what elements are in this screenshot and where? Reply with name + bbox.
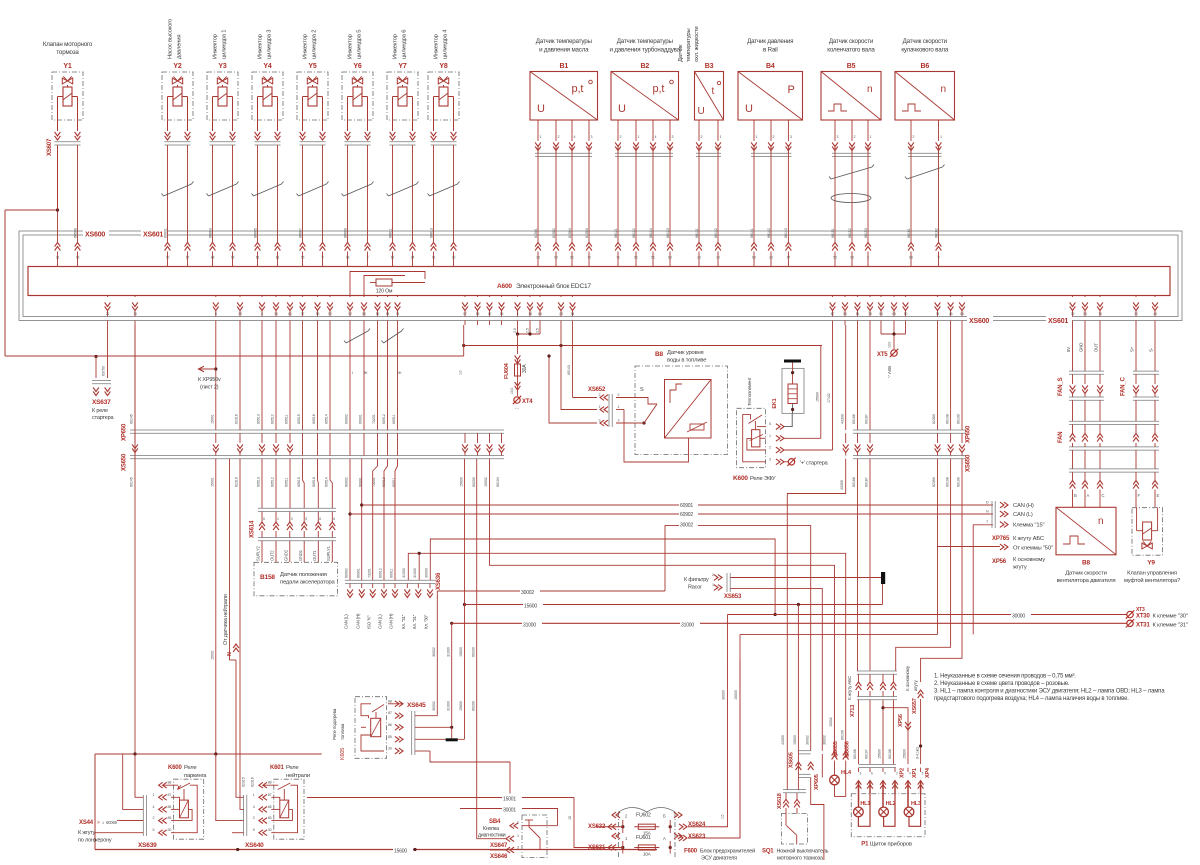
twist marks bbox=[164, 184, 192, 196]
svg-text:60601: 60601 bbox=[163, 228, 167, 238]
svg-text:65: 65 bbox=[892, 312, 896, 316]
svg-text:17: 17 bbox=[186, 256, 190, 260]
svg-text:81: 81 bbox=[856, 312, 860, 316]
svg-text:85: 85 bbox=[168, 816, 172, 820]
svg-text:Датчик скорости: Датчик скорости bbox=[903, 38, 948, 45]
svg-text:64: 64 bbox=[538, 312, 542, 316]
svg-text:60143: 60143 bbox=[784, 228, 788, 238]
svg-text:XS650: XS650 bbox=[966, 454, 972, 472]
svg-text:3: 3 bbox=[769, 457, 771, 461]
svg-text:цилиндра 1: цилиндра 1 bbox=[222, 30, 228, 59]
wires 30002/31000/15600/60200 down bbox=[436, 591, 438, 700]
wire bbox=[537, 120, 539, 141]
svg-text:Ножной выключатель: Ножной выключатель bbox=[777, 848, 829, 855]
svg-text:моторного тормоза: моторного тормоза bbox=[777, 856, 824, 861]
shield B6 bbox=[907, 167, 943, 179]
svg-text:и давления турбонаддува: и давления турбонаддува bbox=[610, 47, 681, 54]
wires to XS640 bbox=[236, 754, 244, 797]
label XS601 bbox=[141, 228, 167, 237]
svg-text:FAN_S: FAN_S bbox=[1058, 377, 1064, 396]
svg-text:CAN (H): CAN (H) bbox=[1013, 503, 1034, 509]
svg-text:6: 6 bbox=[215, 312, 217, 316]
svg-text:51: 51 bbox=[376, 312, 380, 316]
svg-text:74: 74 bbox=[396, 312, 400, 316]
connector XP56 break bbox=[905, 726, 911, 730]
svg-text:Клапан моторного: Клапан моторного bbox=[43, 41, 93, 48]
svg-text:XS640: XS640 bbox=[245, 842, 264, 849]
svg-text:К жгуту: К жгуту bbox=[78, 830, 96, 836]
svg-text:85: 85 bbox=[268, 816, 272, 820]
svg-text:Y6: Y6 bbox=[353, 63, 361, 70]
svg-text:30000: 30000 bbox=[722, 690, 726, 700]
svg-text:А: А bbox=[663, 836, 666, 841]
svg-text:3: 3 bbox=[291, 517, 293, 521]
wire 60911 bbox=[395, 459, 398, 580]
fan clutch valve Y9 bbox=[1132, 508, 1163, 556]
svg-text:XS601: XS601 bbox=[1048, 318, 1068, 325]
svg-text:60513: 60513 bbox=[257, 414, 261, 424]
svg-text:2: 2 bbox=[153, 816, 155, 820]
wire bbox=[55, 136, 61, 140]
wire 60902 bbox=[349, 459, 351, 580]
svg-text:1: 1 bbox=[618, 405, 620, 409]
svg-text:43309: 43309 bbox=[840, 414, 844, 424]
svg-text:60200: 60200 bbox=[471, 701, 475, 711]
svg-text:13: 13 bbox=[500, 312, 504, 316]
svg-text:61503: 61503 bbox=[585, 228, 589, 238]
svg-text:25: 25 bbox=[536, 256, 540, 260]
svg-text:60124: 60124 bbox=[649, 228, 653, 238]
svg-text:28: 28 bbox=[559, 312, 563, 316]
svg-text:63750: 63750 bbox=[102, 366, 106, 376]
svg-text:9: 9 bbox=[322, 256, 324, 260]
svg-text:XP2: XP2 bbox=[900, 768, 906, 778]
svg-text:температуры: температуры bbox=[686, 29, 692, 62]
svg-text:30002: 30002 bbox=[823, 735, 827, 745]
svg-text:48: 48 bbox=[211, 256, 215, 260]
connector XS624 bbox=[683, 824, 687, 830]
svg-text:1: 1 bbox=[756, 135, 758, 139]
svg-text:81: 81 bbox=[276, 256, 280, 260]
svg-text:60513: 60513 bbox=[257, 477, 261, 487]
svg-text:FAN_C: FAN_C bbox=[1121, 376, 1127, 396]
wire bbox=[390, 136, 396, 140]
svg-text:XS44: XS44 bbox=[79, 820, 94, 826]
svg-text:I: I bbox=[387, 371, 388, 375]
svg-text:10,0: 10,0 bbox=[888, 342, 892, 348]
svg-text:XS652: XS652 bbox=[588, 387, 606, 393]
svg-text:87: 87 bbox=[268, 793, 272, 797]
svg-text:6: 6 bbox=[263, 517, 265, 521]
svg-text:60613: 60613 bbox=[429, 228, 433, 238]
svg-text:62316: 62316 bbox=[235, 477, 239, 487]
svg-text:62316: 62316 bbox=[235, 414, 239, 424]
svg-text:30002: 30002 bbox=[521, 590, 534, 596]
svg-text:К основному: К основному bbox=[1013, 557, 1045, 563]
svg-text:охл. жидкости: охл. жидкости bbox=[694, 27, 700, 62]
terminal XT30 bbox=[1127, 611, 1133, 617]
svg-text:45: 45 bbox=[949, 312, 953, 316]
svg-text:60131: 60131 bbox=[695, 228, 699, 238]
svg-text:60152: 60152 bbox=[848, 228, 852, 238]
svg-text:30: 30 bbox=[168, 828, 172, 832]
svg-text:'+' стартера: '+' стартера bbox=[800, 461, 829, 467]
relay internal wires K601 bbox=[271, 785, 297, 833]
connector frame XS600/XS601 bbox=[19, 231, 1182, 321]
svg-text:50: 50 bbox=[328, 312, 332, 316]
svg-text:XS605: XS605 bbox=[789, 752, 795, 768]
svg-text:Датчик: Датчик bbox=[678, 44, 684, 62]
svg-text:60132: 60132 bbox=[714, 228, 718, 238]
svg-text:XS601: XS601 bbox=[143, 232, 163, 239]
svg-text:3: 3 bbox=[599, 419, 601, 423]
svg-text:15600: 15600 bbox=[459, 701, 463, 711]
svg-text:15001: 15001 bbox=[503, 797, 516, 803]
svg-text:60153: 60153 bbox=[864, 228, 868, 238]
svg-text:30: 30 bbox=[452, 256, 456, 260]
svg-text:S: S bbox=[640, 387, 644, 393]
svg-text:5V: 5V bbox=[1066, 347, 1071, 352]
terminal XT4 bbox=[514, 397, 520, 403]
svg-text:20: 20 bbox=[697, 256, 701, 260]
svg-text:Блок предохранителей: Блок предохранителей bbox=[700, 848, 755, 855]
svg-text:15001: 15001 bbox=[211, 414, 215, 424]
svg-text:31000: 31000 bbox=[402, 568, 406, 578]
svg-text:60912: 60912 bbox=[382, 414, 386, 424]
svg-text:1,5: 1,5 bbox=[721, 814, 725, 819]
svg-text:60511: 60511 bbox=[285, 478, 289, 487]
svg-text:2,5: 2,5 bbox=[536, 328, 540, 333]
svg-text:1: 1 bbox=[277, 517, 279, 521]
svg-text:55: 55 bbox=[362, 312, 366, 316]
svg-text:88: 88 bbox=[388, 699, 392, 703]
svg-text:1: 1 bbox=[940, 135, 942, 139]
svg-text:цилиндра 6: цилиндра 6 bbox=[402, 30, 408, 59]
svg-text:4: 4 bbox=[153, 805, 155, 809]
svg-text:60108: 60108 bbox=[888, 749, 892, 759]
wire 15001 / K XP950v bbox=[215, 325, 217, 430]
svg-text:30002: 30002 bbox=[805, 735, 809, 745]
svg-text:XP765: XP765 bbox=[992, 536, 1010, 542]
wire bbox=[910, 120, 912, 141]
svg-text:U: U bbox=[698, 106, 705, 117]
bus 31000 bbox=[450, 622, 453, 625]
svg-text:86: 86 bbox=[168, 805, 172, 809]
svg-text:1: 1 bbox=[599, 405, 601, 409]
svg-text:61504: 61504 bbox=[568, 228, 572, 238]
svg-text:1: 1 bbox=[712, 583, 714, 587]
terminal XT5 bbox=[880, 325, 882, 334]
svg-text:120 Ом: 120 Ом bbox=[376, 289, 393, 295]
relay wires K605 bbox=[388, 703, 403, 705]
svg-text:60186: 60186 bbox=[852, 477, 856, 487]
svg-text:K605: K605 bbox=[340, 748, 346, 760]
svg-text:2: 2 bbox=[867, 256, 869, 260]
svg-text:'-' АКБ: '-' АКБ bbox=[887, 366, 892, 378]
svg-text:К жгуту АБС: К жгуту АБС bbox=[1013, 536, 1044, 542]
svg-text:n: n bbox=[867, 84, 872, 95]
svg-text:61: 61 bbox=[570, 256, 574, 260]
svg-text:B8: B8 bbox=[1082, 560, 1091, 567]
svg-text:87: 87 bbox=[831, 312, 835, 316]
svg-text:XT30: XT30 bbox=[1136, 614, 1150, 620]
svg-text:15600: 15600 bbox=[793, 735, 797, 745]
connector XP650/XS650 right bbox=[845, 325, 847, 430]
connector XS623 bbox=[683, 835, 687, 841]
svg-text:2: 2 bbox=[854, 135, 856, 139]
wire bbox=[165, 136, 171, 140]
twist marks CAN bbox=[346, 331, 368, 343]
svg-text:34: 34 bbox=[571, 312, 575, 316]
svg-text:4: 4 bbox=[655, 135, 657, 139]
svg-text:1: 1 bbox=[540, 135, 542, 139]
svg-text:ISO "K": ISO "K" bbox=[366, 615, 371, 629]
svg-text:3: 3 bbox=[837, 135, 839, 139]
svg-text:77: 77 bbox=[301, 312, 305, 316]
label XS600 bbox=[83, 228, 109, 237]
svg-text:XP650: XP650 bbox=[122, 423, 128, 441]
svg-text:XS600: XS600 bbox=[969, 318, 989, 325]
svg-text:по лонжерону: по лонжерону bbox=[78, 838, 112, 844]
bus to fuel heater bbox=[462, 344, 465, 347]
svg-text:FAN: FAN bbox=[1058, 432, 1064, 443]
svg-text:XS653: XS653 bbox=[724, 594, 742, 600]
instrument panel P1 bbox=[851, 794, 925, 837]
svg-text:60151: 60151 bbox=[831, 228, 835, 238]
terminal 50 arrow bbox=[1004, 544, 1008, 550]
svg-text:Y2: Y2 bbox=[173, 63, 181, 70]
wire 17102 drop bbox=[832, 325, 834, 450]
svg-text:5: 5 bbox=[305, 517, 307, 521]
svg-text:Датчик скорости: Датчик скорости bbox=[829, 38, 874, 45]
svg-text:50: 50 bbox=[904, 312, 908, 316]
svg-text:61: 61 bbox=[288, 312, 292, 316]
svg-text:Кнопка: Кнопка bbox=[483, 826, 499, 832]
wire bbox=[345, 136, 351, 140]
svg-text:61502: 61502 bbox=[552, 228, 556, 238]
svg-text:Кл. "31": Кл. "31" bbox=[412, 614, 417, 629]
svg-text:Инжектор: Инжектор bbox=[434, 34, 440, 59]
svg-text:цилиндра 2: цилиндра 2 bbox=[312, 30, 318, 59]
svg-text:p,t: p,t bbox=[653, 83, 665, 95]
bus 30000 bbox=[728, 614, 1128, 616]
svg-text:давления: давления bbox=[177, 35, 183, 59]
svg-text:20: 20 bbox=[769, 256, 773, 260]
svg-text:FU601: FU601 bbox=[636, 835, 651, 841]
svg-text:педали акселератора: педали акселератора bbox=[280, 580, 336, 586]
wire to XS652 pin3 bbox=[549, 356, 597, 423]
bus 15600 bbox=[463, 603, 466, 606]
svg-text:60515: 60515 bbox=[297, 414, 301, 424]
svg-text:1: 1 bbox=[720, 135, 722, 139]
svg-text:60516: 60516 bbox=[312, 414, 316, 424]
svg-text:60161: 60161 bbox=[907, 228, 911, 238]
junction 60901 bbox=[360, 503, 363, 506]
svg-text:30000: 30000 bbox=[425, 568, 429, 578]
svg-text:50: 50 bbox=[833, 256, 837, 260]
svg-text:XS623: XS623 bbox=[688, 834, 706, 840]
svg-text:XS631: XS631 bbox=[588, 845, 606, 851]
wire 60513 bbox=[261, 325, 263, 430]
svg-text:Инжектор: Инжектор bbox=[258, 34, 264, 59]
wire 15600 drop bbox=[820, 346, 822, 439]
svg-text:коленчатого вала: коленчатого вала bbox=[827, 47, 875, 54]
svg-text:XS607: XS607 bbox=[47, 138, 53, 156]
svg-text:60902: 60902 bbox=[345, 414, 349, 424]
svg-text:95: 95 bbox=[850, 256, 854, 260]
svg-text:XS637: XS637 bbox=[92, 399, 111, 406]
svg-text:XS614: XS614 bbox=[250, 520, 256, 538]
svg-text:35: 35 bbox=[274, 312, 278, 316]
svg-text:60187: 60187 bbox=[865, 414, 869, 424]
svg-text:2: 2 bbox=[367, 256, 369, 260]
svg-text:61: 61 bbox=[391, 256, 395, 260]
svg-text:жгуту: жгуту bbox=[913, 680, 918, 691]
svg-text:Инжектор: Инжектор bbox=[393, 34, 399, 59]
svg-text:Щиток приборов: Щиток приборов bbox=[870, 842, 912, 848]
svg-text:3: 3 bbox=[591, 135, 593, 139]
svg-text:60609: 60609 bbox=[343, 228, 347, 238]
svg-text:73201: 73201 bbox=[372, 414, 376, 424]
bottom bus 15600 bbox=[95, 849, 657, 851]
svg-text:31000: 31000 bbox=[523, 622, 536, 628]
bottom pin wires bbox=[107, 296, 109, 298]
svg-text:XS636: XS636 bbox=[436, 572, 442, 590]
svg-text:CAN (L): CAN (L) bbox=[344, 614, 349, 629]
top pin wires bbox=[57, 145, 59, 242]
svg-text:51: 51 bbox=[651, 256, 655, 260]
svg-text:60108: 60108 bbox=[945, 477, 949, 487]
svg-text:От датчика нейтрали: От датчика нейтрали bbox=[222, 594, 229, 645]
svg-text:43309: 43309 bbox=[781, 735, 785, 745]
svg-text:тормоза: тормоза bbox=[56, 49, 79, 56]
svg-text:К жгуту АБС: К жгуту АБС bbox=[847, 675, 852, 700]
svg-text:цилиндра 3: цилиндра 3 bbox=[267, 30, 273, 59]
svg-text:XP56: XP56 bbox=[992, 559, 1007, 565]
svg-text:2. Неуказанные в схеме цвета п: 2. Неуказанные в схеме цвета проводов – … bbox=[934, 681, 1070, 687]
svg-text:31000: 31000 bbox=[446, 647, 450, 657]
svg-text:44: 44 bbox=[1153, 312, 1157, 316]
svg-text:предстартового подогрева возду: предстартового подогрева воздуха; HL4 – … bbox=[934, 696, 1129, 702]
svg-text:Датчик уровня: Датчик уровня bbox=[667, 350, 703, 356]
svg-text:B4: B4 bbox=[766, 63, 775, 70]
junction 60902 bbox=[348, 512, 351, 515]
label XS601 bottom bbox=[1046, 315, 1072, 324]
connector XP605 bbox=[798, 773, 810, 775]
terminal XT31 bbox=[1127, 620, 1133, 626]
svg-text:60901: 60901 bbox=[359, 414, 363, 424]
svg-text:30001: 30001 bbox=[503, 808, 516, 814]
junction to XP56 bbox=[881, 706, 884, 709]
svg-text:60901: 60901 bbox=[356, 568, 360, 578]
svg-text:39: 39 bbox=[868, 312, 872, 316]
svg-text:60611: 60611 bbox=[388, 229, 392, 238]
wire 30002 to XP765 bbox=[665, 526, 811, 751]
svg-text:0-4,1кΩ: 0-4,1кΩ bbox=[915, 747, 919, 759]
svg-text:85: 85 bbox=[388, 735, 392, 739]
svg-text:CAN (H): CAN (H) bbox=[389, 613, 394, 629]
svg-text:XT5: XT5 bbox=[877, 352, 888, 358]
svg-text:78: 78 bbox=[346, 256, 350, 260]
svg-text:2: 2 bbox=[701, 135, 703, 139]
svg-text:60122: 60122 bbox=[632, 228, 636, 238]
svg-text:60912: 60912 bbox=[379, 568, 383, 578]
svg-text:54: 54 bbox=[879, 312, 883, 316]
svg-text:60902: 60902 bbox=[680, 512, 693, 518]
svg-text:HL4: HL4 bbox=[841, 770, 852, 776]
wire 60145 bbox=[134, 325, 136, 430]
svg-text:1: 1 bbox=[638, 135, 640, 139]
svg-text:3: 3 bbox=[672, 135, 674, 139]
svg-text:60911: 60911 bbox=[392, 415, 396, 424]
svg-text:30: 30 bbox=[388, 747, 392, 751]
svg-text:15000: 15000 bbox=[734, 690, 738, 700]
svg-text:21: 21 bbox=[106, 312, 110, 316]
fan speed sensor B8 bbox=[1056, 507, 1116, 555]
svg-text:43309: 43309 bbox=[840, 480, 844, 490]
svg-text:паркинга: паркинга bbox=[184, 773, 207, 779]
svg-text:Инжектор: Инжектор bbox=[303, 34, 309, 59]
svg-text:Датчик скорости: Датчик скорости bbox=[1065, 571, 1106, 577]
svg-text:K600: K600 bbox=[168, 765, 182, 771]
svg-text:10А: 10А bbox=[643, 852, 652, 857]
wire bbox=[753, 120, 755, 141]
svg-text:XS639: XS639 bbox=[138, 842, 157, 849]
svg-text:86: 86 bbox=[268, 805, 272, 809]
bus labels 60901/60902/30002 bbox=[679, 501, 698, 509]
svg-text:XS655: XS655 bbox=[833, 741, 839, 757]
svg-text:XS657: XS657 bbox=[912, 698, 918, 714]
svg-text:2: 2 bbox=[913, 135, 915, 139]
svg-text:31: 31 bbox=[56, 256, 60, 260]
svg-text:60603: 60603 bbox=[208, 228, 212, 238]
svg-text:18: 18 bbox=[528, 312, 532, 316]
svg-text:HL2: HL2 bbox=[886, 801, 896, 807]
svg-text:62350: 62350 bbox=[932, 477, 936, 487]
wire 60912 bbox=[384, 459, 388, 580]
svg-text:цилиндра 5: цилиндра 5 bbox=[357, 30, 363, 59]
svg-text:P: P bbox=[788, 84, 795, 96]
svg-text:5: 5 bbox=[253, 828, 255, 832]
svg-text:60106: 60106 bbox=[841, 730, 845, 740]
svg-text:F600: F600 bbox=[684, 849, 698, 855]
svg-text:X713: X713 bbox=[850, 705, 856, 717]
svg-text:2,5: 2,5 bbox=[526, 328, 530, 333]
svg-text:87: 87 bbox=[388, 711, 392, 715]
svg-text:60902: 60902 bbox=[345, 568, 349, 578]
svg-text:57: 57 bbox=[463, 312, 467, 316]
svg-text:Теплоэлемент: Теплоэлемент bbox=[747, 376, 752, 406]
svg-text:15001: 15001 bbox=[211, 650, 215, 660]
svg-text:Y9: Y9 bbox=[1147, 560, 1155, 567]
svg-text:6: 6 bbox=[319, 517, 321, 521]
wires to B158 bbox=[303, 459, 305, 508]
svg-text:GND: GND bbox=[1079, 343, 1084, 352]
svg-text:SQ1: SQ1 bbox=[762, 849, 774, 855]
svg-text:69: 69 bbox=[960, 312, 964, 316]
svg-text:Инжектор: Инжектор bbox=[213, 34, 219, 59]
svg-text:60515: 60515 bbox=[297, 477, 301, 487]
svg-text:Инжектор: Инжектор bbox=[348, 34, 354, 59]
svg-text:60511: 60511 bbox=[285, 415, 289, 424]
svg-text:n: n bbox=[941, 84, 946, 95]
svg-text:74: 74 bbox=[936, 312, 940, 316]
svg-text:75: 75 bbox=[1071, 312, 1075, 316]
svg-text:3: 3 bbox=[618, 419, 620, 423]
svg-text:75: 75 bbox=[1098, 312, 1102, 316]
wire 73201 bbox=[373, 459, 378, 580]
svg-text:60143: 60143 bbox=[567, 365, 571, 375]
